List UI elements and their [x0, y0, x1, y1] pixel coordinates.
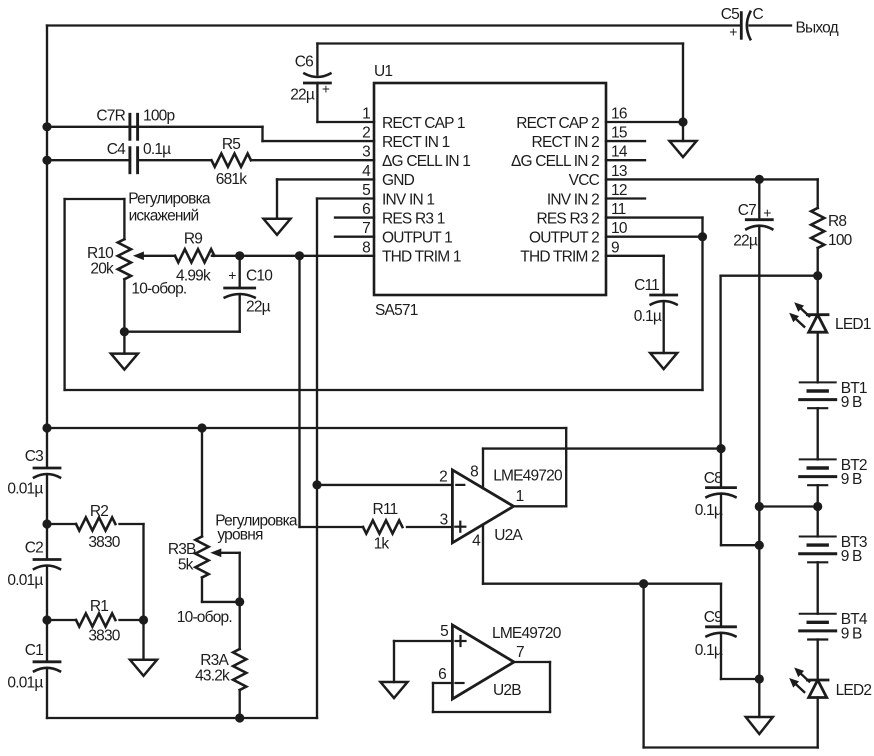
resistor R5 681k	[212, 136, 375, 188]
svg-text:4: 4	[472, 533, 481, 550]
resistor R2 3830	[47, 503, 144, 551]
wire U2A supply rail	[483, 447, 721, 449]
wire left bus vertical	[46, 26, 48, 469]
svg-text:+: +	[729, 24, 737, 40]
node junction dot C10 top	[235, 251, 244, 260]
svg-text:22µ: 22µ	[290, 87, 315, 104]
svg-text:0.1µ: 0.1µ	[143, 141, 171, 158]
wire U2B pin6 feedback	[433, 662, 550, 712]
node junction dot R10 bottom	[120, 327, 129, 336]
op-amp U2A LME49720	[439, 464, 563, 550]
svg-text:6: 6	[362, 201, 370, 218]
resistor R1 3830	[47, 598, 144, 645]
svg-text:3: 3	[362, 144, 370, 161]
wire pin4 node drop	[642, 584, 644, 748]
wire R10 to ground	[123, 332, 125, 354]
svg-text:100p: 100p	[143, 108, 174, 125]
svg-text:0.1µ: 0.1µ	[634, 308, 662, 325]
wire pin11 RES R3 2	[606, 216, 703, 218]
wire C10 bottom to R10	[124, 331, 239, 333]
svg-text:3830: 3830	[88, 628, 120, 645]
node junction dot R1 tap	[42, 615, 51, 624]
svg-text:6: 6	[438, 666, 446, 683]
svg-text:C8: C8	[704, 470, 722, 487]
svg-text:9 В: 9 В	[841, 394, 862, 411]
wire pin1 to C6	[317, 121, 374, 123]
wire pin16 gnd stub	[682, 122, 684, 141]
wire R2-R1 link	[142, 524, 144, 620]
capacitor C6 22u	[290, 44, 330, 123]
node junction dot C4-left bus	[42, 156, 51, 165]
svg-text:15: 15	[611, 125, 627, 142]
wire pin8 THD TRIM 1 rail	[212, 255, 374, 257]
potentiometer R3B 5k	[168, 428, 240, 626]
node junction dot C7R-left bus	[42, 122, 51, 131]
LED LED2	[789, 668, 871, 700]
svg-text:уровня: уровня	[217, 527, 263, 544]
wire pin9 THD TRIM 2	[606, 256, 664, 295]
capacitor C4 0.1u	[107, 141, 171, 173]
capacitor C10 22u	[225, 256, 274, 332]
node junction dot battery mid tap left	[755, 502, 764, 511]
node junction dot C8 bottom	[755, 541, 764, 550]
capacitor C9 0.1u	[695, 584, 760, 679]
label Регулировка искажений	[128, 191, 211, 225]
capacitor C8 0.1u	[695, 449, 760, 546]
wire INV IN 1 vertical bus	[316, 199, 318, 719]
capacitor C5	[721, 6, 764, 40]
wire U2B gnd lead	[393, 641, 395, 682]
wire LED2 bottom	[817, 698, 819, 748]
wire R8 bottom to C8 column	[721, 275, 818, 277]
capacitor C7 22u	[733, 179, 772, 717]
node junction dot pin8 branch	[295, 251, 304, 260]
wire bottom left rail	[47, 717, 317, 719]
wire bottom right rail	[644, 746, 818, 748]
svg-text:11: 11	[611, 201, 626, 218]
svg-text:R1: R1	[90, 598, 108, 615]
wire THD TRIM 1 vertical to R11	[298, 256, 300, 527]
svg-text:0.01µ: 0.01µ	[7, 572, 43, 589]
op-amp U2B LME49720	[438, 623, 562, 699]
svg-text:R10: R10	[87, 245, 114, 262]
svg-text:4: 4	[362, 163, 371, 180]
node Выход output label	[796, 20, 839, 37]
svg-text:LME49720: LME49720	[493, 468, 563, 485]
svg-text:10-обор.: 10-обор.	[177, 609, 232, 626]
svg-text:GND: GND	[382, 172, 415, 189]
svg-text:ΔG CELL IN 1: ΔG CELL IN 1	[382, 153, 470, 170]
wire C4 rail	[47, 159, 211, 161]
node junction dot bus-R3B	[197, 423, 206, 432]
svg-text:0.01µ: 0.01µ	[7, 675, 43, 692]
node junction dot C9 bottom	[755, 674, 764, 683]
svg-text:9 В: 9 В	[841, 625, 862, 642]
wire BT2 to tap	[817, 485, 819, 536]
svg-text:2: 2	[439, 469, 447, 486]
svg-text:9 В: 9 В	[841, 548, 862, 565]
ground main right	[746, 717, 773, 734]
svg-text:C: C	[753, 6, 764, 23]
wire R1 to ground	[142, 620, 144, 660]
svg-text:9: 9	[611, 239, 619, 256]
svg-text:C11: C11	[634, 277, 659, 294]
svg-text:C7R: C7R	[96, 108, 125, 125]
svg-text:0.1µ: 0.1µ	[695, 502, 723, 519]
wire pin7 stub	[335, 236, 374, 238]
svg-text:C1: C1	[25, 642, 43, 659]
node junction dot battery mid tap right	[813, 502, 822, 511]
wire C7R step to pin2	[263, 127, 375, 141]
svg-text:THD TRIM 1: THD TRIM 1	[382, 249, 461, 266]
svg-text:0.1µ: 0.1µ	[695, 642, 723, 659]
wire pin13 VCC rail	[606, 178, 818, 180]
svg-text:C7: C7	[738, 202, 756, 219]
svg-text:2: 2	[362, 125, 370, 142]
svg-text:C6: C6	[295, 54, 313, 71]
svg-text:C4: C4	[107, 141, 126, 158]
ground pin4	[264, 219, 291, 235]
node junction dot R2 tap	[42, 519, 51, 528]
svg-text:7: 7	[516, 644, 524, 661]
op-amp IC U1 SA571 body	[374, 63, 606, 319]
wire top rail	[47, 24, 740, 26]
wire pin15 stub	[606, 140, 645, 142]
wire output bus	[47, 427, 566, 429]
svg-text:RECT IN 2: RECT IN 2	[532, 134, 600, 151]
wire U2A feedback vertical	[565, 428, 567, 506]
svg-text:RECT IN 1: RECT IN 1	[382, 134, 450, 151]
battery BT2 9V	[800, 457, 867, 488]
ground U2B	[381, 682, 408, 698]
node junction dot R3B bottom	[235, 597, 244, 606]
U1 left pin labels 1-8	[362, 106, 470, 266]
svg-text:R11: R11	[373, 501, 398, 518]
node junction dot R8 bottom	[813, 271, 822, 280]
R10 wiper arrow	[133, 252, 175, 261]
svg-text:ΔG CELL IN 2: ΔG CELL IN 2	[511, 153, 599, 170]
ground C11	[650, 353, 677, 369]
svg-text:9 В: 9 В	[841, 471, 862, 488]
svg-text:12: 12	[611, 182, 627, 199]
label Регулировка уровня	[215, 513, 298, 544]
svg-text:Регулировка: Регулировка	[128, 191, 211, 208]
svg-text:THD TRIM 2: THD TRIM 2	[520, 249, 599, 266]
svg-text:U2A: U2A	[494, 527, 523, 544]
svg-text:4.99k: 4.99k	[176, 268, 211, 285]
svg-text:SA571: SA571	[375, 302, 418, 319]
node junction dot VCC-C7	[755, 175, 764, 184]
node junction dot pin16	[678, 117, 687, 126]
node junction dot pin2 branch	[312, 480, 321, 489]
svg-text:RES R3 1: RES R3 1	[382, 210, 445, 227]
svg-text:LED1: LED1	[835, 316, 871, 333]
wire RES R3 2 vertical	[701, 218, 703, 390]
capacitor C7R 100p	[96, 108, 174, 140]
wire U2A pin8 supply	[482, 449, 484, 489]
svg-text:8: 8	[470, 464, 478, 481]
svg-text:LED2: LED2	[836, 682, 872, 699]
svg-text:OUTPUT 2: OUTPUT 2	[529, 230, 599, 247]
wire LED1 to BT1	[817, 332, 819, 382]
wire C6 drop	[682, 44, 684, 123]
svg-text:+: +	[322, 82, 330, 97]
wire BT3 to BT4	[817, 562, 819, 613]
svg-text:1: 1	[516, 488, 524, 505]
wire C8 column upper	[719, 276, 721, 449]
wire C7R rail	[47, 126, 263, 128]
svg-text:22µ: 22µ	[246, 299, 271, 316]
wire U2A pin2 input	[317, 484, 452, 486]
wire pin14 stub	[606, 159, 645, 161]
node junction dot R3A bottom	[235, 713, 244, 722]
node junction dot bus-left	[42, 423, 51, 432]
svg-text:Выход: Выход	[796, 20, 839, 37]
svg-text:3: 3	[440, 512, 448, 529]
battery BT3 9V	[800, 534, 867, 565]
svg-text:C10: C10	[246, 268, 273, 285]
svg-text:100: 100	[828, 232, 853, 249]
capacitor C3 0.01u	[7, 448, 60, 560]
svg-text:1: 1	[362, 106, 370, 123]
svg-text:C3: C3	[25, 448, 43, 465]
svg-text:14: 14	[611, 144, 628, 161]
svg-text:RECT CAP 2: RECT CAP 2	[516, 115, 599, 132]
svg-text:3830: 3830	[88, 534, 120, 551]
capacitor C1 0.01u	[7, 642, 60, 718]
U1 right pin labels 9-16	[511, 106, 628, 266]
wire BT4 to LED2	[817, 640, 819, 681]
svg-text:1k: 1k	[374, 536, 390, 553]
svg-text:C9: C9	[704, 609, 722, 626]
svg-text:+: +	[763, 205, 771, 221]
resistor R8 100	[811, 179, 853, 275]
wire R8 to LED1	[817, 276, 819, 315]
wire pin16 to ground node	[606, 121, 683, 123]
svg-text:8: 8	[362, 239, 370, 256]
capacitor C11 0.1u	[634, 277, 677, 353]
svg-text:C5: C5	[721, 6, 739, 23]
wire pin12 stub	[606, 197, 645, 199]
svg-text:искажений: искажений	[129, 208, 199, 225]
svg-text:C2: C2	[25, 540, 43, 557]
wire C5 to output	[750, 24, 792, 26]
svg-text:R3B: R3B	[168, 541, 196, 558]
svg-text:LME49720: LME49720	[492, 625, 562, 642]
node junction dot supply-C8	[716, 444, 725, 453]
svg-text:681k: 681k	[216, 171, 247, 188]
svg-text:RES R3 2: RES R3 2	[536, 210, 599, 227]
wire distortion loop top	[65, 198, 125, 200]
svg-text:5: 5	[440, 623, 448, 640]
battery BT4 9V	[800, 611, 868, 642]
wire pin5 INV IN 1 to vertical	[317, 197, 374, 199]
svg-text:43.2k: 43.2k	[195, 668, 230, 685]
svg-text:5k: 5k	[178, 557, 194, 574]
svg-text:R5: R5	[222, 136, 240, 153]
wire pin6 stub	[335, 216, 374, 218]
wire U2B pin5	[394, 640, 452, 642]
svg-text:10: 10	[611, 220, 628, 237]
wire distortion loop left	[63, 199, 65, 390]
R3B wiper arrow	[210, 549, 239, 602]
svg-text:R8: R8	[828, 213, 846, 230]
svg-text:OUTPUT 1: OUTPUT 1	[382, 230, 452, 247]
svg-text:16: 16	[611, 106, 627, 123]
svg-text:0.01µ: 0.01µ	[7, 481, 43, 498]
svg-text:R3A: R3A	[200, 652, 229, 669]
wire pin4 GND lead	[277, 179, 374, 218]
svg-text:R9: R9	[184, 231, 202, 248]
svg-text:RECT CAP 1: RECT CAP 1	[382, 115, 465, 132]
svg-text:INV IN 2: INV IN 2	[547, 191, 599, 208]
capacitor C2 0.01u	[7, 540, 60, 662]
svg-text:VCC: VCC	[569, 172, 600, 189]
wire C6 top	[317, 42, 683, 44]
resistor R3A 43.2k	[195, 602, 246, 718]
ground R10	[111, 354, 138, 370]
node junction dot R1 right	[139, 615, 148, 624]
ground pin16	[670, 141, 697, 157]
svg-text:U1: U1	[374, 63, 392, 80]
wire U2A pin4	[483, 525, 721, 584]
svg-text:13: 13	[611, 163, 627, 180]
wire RES R3 2 return bottom	[65, 389, 703, 391]
svg-text:U2B: U2B	[493, 682, 521, 699]
battery BT1 9V	[800, 380, 867, 411]
svg-text:7: 7	[362, 220, 370, 237]
wire U2A output	[514, 505, 567, 507]
svg-text:20k: 20k	[90, 261, 114, 278]
ground R1 R2	[130, 660, 157, 676]
LED LED1	[789, 302, 871, 333]
potentiometer R10 20k	[87, 199, 187, 332]
svg-text:5: 5	[362, 182, 370, 199]
node junction dot pin10	[698, 232, 707, 241]
svg-text:R2: R2	[90, 503, 108, 520]
wire pin10 OUTPUT 2	[606, 236, 703, 238]
svg-text:22µ: 22µ	[733, 233, 758, 250]
wire battery tap	[759, 505, 817, 507]
resistor R9 4.99k	[175, 231, 214, 285]
resistor R11 1k	[300, 501, 453, 553]
node junction dot pin4 rail	[639, 579, 648, 588]
wire BT1 to BT2	[817, 408, 819, 459]
svg-text:INV IN 1: INV IN 1	[382, 191, 434, 208]
svg-text:+: +	[228, 267, 236, 283]
